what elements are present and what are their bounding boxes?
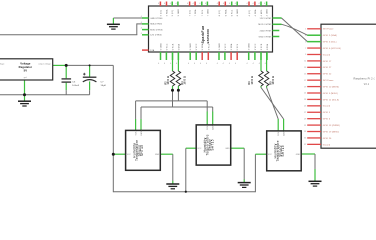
svg-text:5: 5 xyxy=(305,41,306,43)
svg-text:4: 4 xyxy=(158,3,159,5)
svg-text:4: 4 xyxy=(217,3,218,5)
svg-text:1000 Ω: 1000 Ω xyxy=(252,76,254,84)
svg-text:4: 4 xyxy=(141,16,142,18)
svg-text:VCC: VCC xyxy=(268,154,273,156)
svg-text:9 GND: 9 GND xyxy=(178,9,180,16)
svg-text:5V: 5V xyxy=(24,68,28,72)
svg-text:6 (IO): 6 (IO) xyxy=(219,10,221,16)
svg-text:4: 4 xyxy=(259,63,260,65)
svg-text:4 SDA: 4 SDA xyxy=(254,9,257,16)
svg-text:4: 4 xyxy=(205,3,206,5)
svg-text:9: 9 xyxy=(305,54,306,56)
svg-text:4: 4 xyxy=(187,3,188,5)
svg-text:GND DTR06: GND DTR06 xyxy=(150,18,163,20)
svg-text:1 VCC: 1 VCC xyxy=(255,43,257,50)
svg-text:21: 21 xyxy=(304,93,306,95)
svg-text:9 SDA: 9 SDA xyxy=(166,9,169,16)
svg-text:4: 4 xyxy=(141,22,142,24)
svg-text:100nF: 100nF xyxy=(72,85,79,87)
svg-text:GPIO 11 (SCLK): GPIO 11 (SCLK) xyxy=(323,99,340,101)
svg-text:4: 4 xyxy=(188,63,189,65)
svg-text:SDA DTR06: SDA DTR06 xyxy=(150,23,163,26)
svg-text:Ground: Ground xyxy=(323,144,330,146)
svg-text:2 GND: 2 GND xyxy=(219,43,221,50)
svg-text:GPIO 9 (MISO): GPIO 9 (MISO) xyxy=(323,93,338,95)
svg-text:DATA: DATA xyxy=(282,130,285,135)
svg-text:GPIO 2 (SDA): GPIO 2 (SDA) xyxy=(323,34,337,37)
svg-text:4 GND: 4 GND xyxy=(267,9,269,16)
svg-text:DATA: DATA xyxy=(212,124,215,129)
svg-text:SHT15: SHT15 xyxy=(211,139,215,150)
svg-text:Ground: Ground xyxy=(323,54,330,56)
svg-text:3 GND: 3 GND xyxy=(190,43,192,50)
svg-text:22A I/HTM: 22A I/HTM xyxy=(260,29,271,32)
svg-text:9 (IO): 9 (IO) xyxy=(172,10,174,16)
svg-text:4 MCL: 4 MCL xyxy=(261,9,263,17)
svg-text:2 SDA: 2 SDA xyxy=(230,43,233,50)
svg-text:4: 4 xyxy=(141,28,142,30)
svg-text:4: 4 xyxy=(176,63,177,65)
svg-text:output voltage: output voltage xyxy=(38,62,51,65)
svg-text:10µF: 10µF xyxy=(101,85,107,87)
svg-text:4: 4 xyxy=(265,63,266,65)
svg-text:7 GND: 7 GND xyxy=(207,9,209,16)
svg-text:7 (IO): 7 (IO) xyxy=(190,10,192,16)
svg-text:15: 15 xyxy=(304,73,306,75)
svg-text:R4: R4 xyxy=(181,81,184,85)
svg-text:23: 23 xyxy=(304,99,306,101)
svg-text:4: 4 xyxy=(223,3,224,5)
svg-text:GND: GND xyxy=(296,154,301,156)
svg-text:GPIO 22: GPIO 22 xyxy=(323,74,332,76)
svg-text:3 VCC: 3 VCC xyxy=(196,43,198,50)
svg-text:4: 4 xyxy=(158,63,159,65)
svg-text:VCC: VCC xyxy=(197,148,202,150)
svg-text:MOD DTR06: MOD DTR06 xyxy=(150,29,163,31)
svg-text:4: 4 xyxy=(170,63,171,65)
svg-text:3V3 Power: 3V3 Power xyxy=(323,29,334,31)
svg-text:7 SDA: 7 SDA xyxy=(194,9,197,16)
svg-text:GPIO 17: GPIO 17 xyxy=(323,61,332,63)
svg-text:4: 4 xyxy=(247,3,248,5)
svg-text:GND: GND xyxy=(155,154,160,156)
svg-text:4 (IO): 4 (IO) xyxy=(249,10,251,16)
svg-text:6 GND: 6 GND xyxy=(237,9,239,16)
svg-text:9 (IO): 9 (IO) xyxy=(160,10,162,16)
svg-text:SHT15: SHT15 xyxy=(281,145,285,156)
svg-text:1: 1 xyxy=(305,29,306,31)
svg-text:19: 19 xyxy=(304,86,306,88)
svg-text:GPIO 13 (PWM1): GPIO 13 (PWM1) xyxy=(323,125,341,127)
svg-text:5 DTA: 5 DTA xyxy=(177,43,180,50)
svg-text:GPIO 27: GPIO 27 xyxy=(323,67,332,69)
svg-text:4: 4 xyxy=(229,3,230,5)
svg-text:6 SDA: 6 SDA xyxy=(224,9,227,16)
svg-text:GND: GND xyxy=(225,148,230,150)
svg-text:3V3 Power: 3V3 Power xyxy=(323,80,334,82)
svg-text:GPIO 6: GPIO 6 xyxy=(323,119,331,121)
svg-text:4: 4 xyxy=(253,63,254,65)
svg-text:Ground: Ground xyxy=(323,106,330,108)
svg-text:5 GND: 5 GND xyxy=(161,43,163,50)
svg-text:31: 31 xyxy=(304,125,306,127)
svg-text:4: 4 xyxy=(200,63,201,65)
svg-text:4: 4 xyxy=(164,3,165,5)
svg-text:GPIO 26: GPIO 26 xyxy=(323,138,332,140)
svg-text:5 SCK: 5 SCK xyxy=(173,43,175,50)
svg-text:1000 Ω: 1000 Ω xyxy=(273,76,275,85)
svg-text:4: 4 xyxy=(229,63,230,65)
svg-text:4: 4 xyxy=(246,63,247,65)
svg-text:DATA: DATA xyxy=(140,130,143,135)
svg-text:GPIO 10 (MOSI): GPIO 10 (MOSI) xyxy=(323,86,340,88)
svg-text:Raspberry Pi 2 (: Raspberry Pi 2 ( xyxy=(354,76,375,80)
svg-text:4: 4 xyxy=(235,63,236,65)
svg-text:17: 17 xyxy=(304,80,306,82)
svg-text:GPIO 3 (SCL): GPIO 3 (SCL) xyxy=(323,42,337,44)
svg-text:27: 27 xyxy=(304,112,306,114)
svg-text:12G DTR06: 12G DTR06 xyxy=(150,35,162,37)
svg-text:4: 4 xyxy=(223,63,224,65)
svg-text:2 SCL: 2 SCL xyxy=(237,43,239,50)
svg-text:4: 4 xyxy=(141,33,142,35)
svg-text:4: 4 xyxy=(164,63,165,65)
svg-text:7: 7 xyxy=(305,48,306,50)
svg-text:GPIO 5: GPIO 5 xyxy=(323,112,331,114)
svg-text:2 VCC: 2 VCC xyxy=(225,43,227,50)
svg-text:4: 4 xyxy=(193,3,194,5)
svg-text:4: 4 xyxy=(194,63,195,65)
svg-text:VCC: VCC xyxy=(127,154,132,156)
svg-text:13: 13 xyxy=(304,67,306,69)
svg-text:GPIO 19 (MISO): GPIO 19 (MISO) xyxy=(323,131,340,133)
svg-text:GPIO 4 (GPCLK0): GPIO 4 (GPCLK0) xyxy=(323,48,341,50)
svg-text:35: 35 xyxy=(304,138,306,140)
svg-text:4: 4 xyxy=(199,3,200,5)
svg-text:33: 33 xyxy=(304,131,306,133)
svg-text:5 VCC: 5 VCC xyxy=(166,43,168,50)
svg-text:ESP8266: ESP8266 xyxy=(206,29,210,44)
svg-text:4: 4 xyxy=(206,63,207,65)
svg-text:MOD I/HTM: MOD I/HTM xyxy=(258,24,271,26)
svg-text:1000 Ω: 1000 Ω xyxy=(184,76,186,85)
svg-text:4: 4 xyxy=(235,3,236,5)
svg-text:GND I/HTM: GND I/HTM xyxy=(259,36,271,38)
svg-text:4: 4 xyxy=(170,3,171,5)
svg-text:4: 4 xyxy=(217,63,218,65)
svg-text:1000 Ω: 1000 Ω xyxy=(168,76,170,85)
svg-text:Voltage: Voltage xyxy=(20,62,31,66)
svg-text:4: 4 xyxy=(252,3,253,5)
svg-text:1 GND: 1 GND xyxy=(249,43,251,50)
svg-text:25: 25 xyxy=(304,106,306,108)
svg-text:1 DTA: 1 DTA xyxy=(266,43,269,50)
svg-text:4: 4 xyxy=(259,3,260,5)
svg-text:4: 4 xyxy=(175,3,176,5)
svg-text:SHT15: SHT15 xyxy=(140,145,144,156)
svg-text:11: 11 xyxy=(304,61,306,63)
svg-text:1 SCK: 1 SCK xyxy=(261,43,263,50)
svg-text:7 SCL: 7 SCL xyxy=(202,9,204,16)
svg-text:12V I/HTM: 12V I/HTM xyxy=(260,18,271,20)
svg-text:SparkFun: SparkFun xyxy=(201,25,205,43)
svg-text:V2.1: V2.1 xyxy=(364,84,370,86)
svg-text:Regulator: Regulator xyxy=(19,65,32,69)
svg-text:29: 29 xyxy=(304,118,306,120)
svg-text:12A: 12A xyxy=(150,49,155,52)
svg-text:6 SCL: 6 SCL xyxy=(232,9,234,16)
svg-text:3: 3 xyxy=(305,35,306,37)
svg-text:4: 4 xyxy=(264,3,265,5)
svg-text:37: 37 xyxy=(304,144,306,146)
svg-text:gnd: gnd xyxy=(24,77,27,79)
